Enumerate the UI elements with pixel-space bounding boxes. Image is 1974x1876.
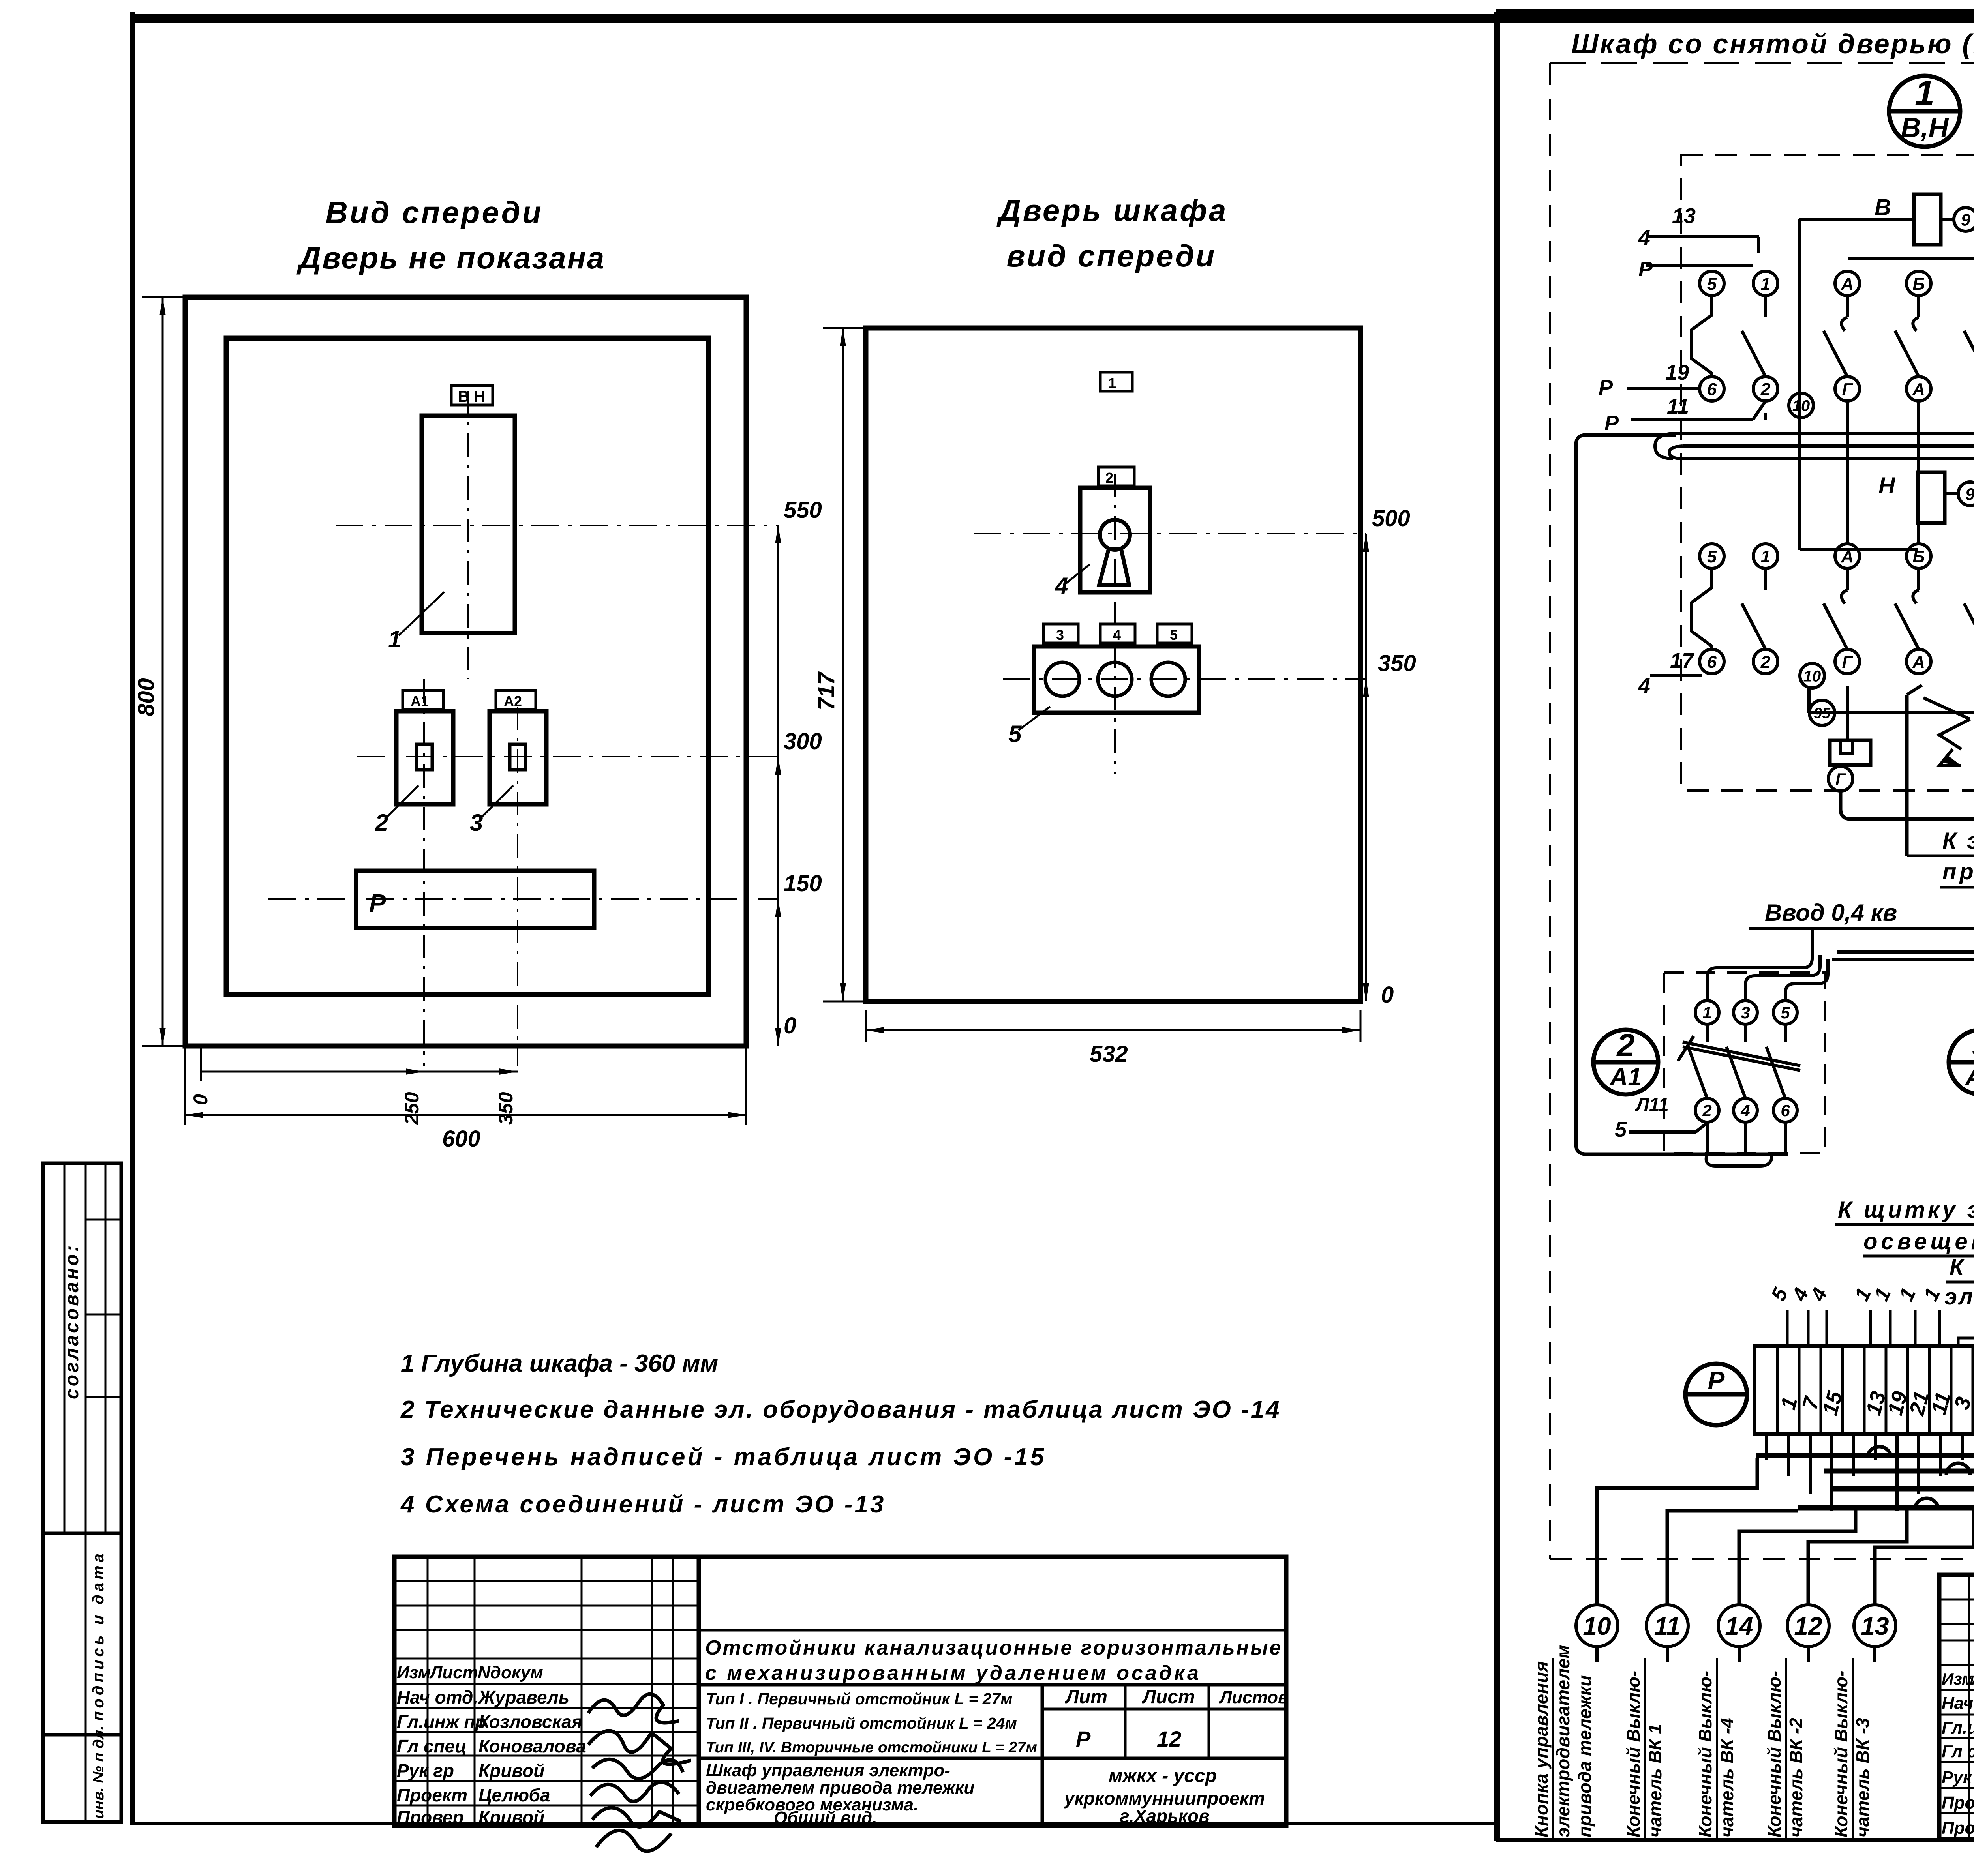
svg-text:Кнопка управления: Кнопка управления — [1531, 1661, 1552, 1837]
svg-text:Провер: Провер — [397, 1807, 464, 1827]
svg-text:10: 10 — [1583, 1612, 1611, 1640]
svg-text:А1: А1 — [1609, 1063, 1642, 1091]
svg-text:4: 4 — [1055, 573, 1068, 599]
svg-text:К шкафу управления: К шкафу управления — [1950, 1254, 1974, 1280]
svg-text:В: В — [1875, 195, 1891, 220]
svg-text:11: 11 — [1667, 395, 1689, 418]
svg-text:Гл.инж пр: Гл.инж пр — [1942, 1718, 1974, 1737]
svg-text:Г: Г — [1842, 380, 1853, 399]
svg-text:А2: А2 — [1965, 1063, 1974, 1091]
svg-text:550: 550 — [784, 497, 822, 523]
svg-text:Проект: Проект — [1942, 1793, 1974, 1812]
svg-text:Ввод 0,4 кв: Ввод 0,4 кв — [1765, 900, 1897, 926]
svg-text:А: А — [1841, 274, 1854, 294]
svg-text:Журавель: Журавель — [478, 1687, 569, 1707]
svg-text:0: 0 — [784, 1013, 796, 1038]
svg-text:1: 1 — [1761, 547, 1770, 566]
svg-text:согласовано:: согласовано: — [62, 1243, 83, 1399]
svg-text:Целюба: Целюба — [478, 1785, 550, 1805]
svg-text:Изм: Изм — [1942, 1670, 1974, 1688]
svg-text:подпись и дата: подпись и дата — [90, 1550, 107, 1721]
svg-text:5: 5 — [1615, 1118, 1627, 1141]
svg-text:17: 17 — [1670, 649, 1695, 673]
svg-text:Гл спец: Гл спец — [1942, 1742, 1974, 1761]
svg-text:А: А — [1912, 380, 1925, 399]
svg-text:350: 350 — [1378, 650, 1416, 676]
svg-text:95: 95 — [1814, 705, 1831, 722]
svg-text:Отстойники канализационные г: Отстойники канализационные горизонтальны… — [705, 1636, 1282, 1659]
svg-text:Рук гр: Рук гр — [397, 1760, 454, 1781]
svg-text:Л11: Л11 — [1635, 1094, 1669, 1115]
svg-text:Р: Р — [1076, 1726, 1091, 1751]
svg-text:с механизированным удалением: с механизированным удалением осадка — [705, 1662, 1201, 1685]
svg-text:4: 4 — [1638, 674, 1650, 697]
svg-text:350: 350 — [495, 1092, 517, 1125]
svg-text:Листов: Листов — [1219, 1688, 1289, 1707]
svg-text:Шкаф со снятой дверью (ви: Шкаф со снятой дверью (вид спереди) — [1571, 28, 1974, 59]
svg-text:Рук гр: Рук гр — [1942, 1768, 1974, 1787]
svg-text:600: 600 — [442, 1126, 480, 1152]
svg-text:К электродвигателю: К электродвигателю — [1942, 828, 1974, 854]
svg-text:Нач отд.: Нач отд. — [1942, 1694, 1974, 1713]
svg-text:Гл спец: Гл спец — [397, 1736, 467, 1756]
svg-text:Провер: Провер — [1942, 1818, 1974, 1838]
svg-text:13: 13 — [1861, 1612, 1889, 1640]
svg-text:Дверь не показана: Дверь не показана — [296, 240, 606, 275]
svg-text:1: 1 — [1915, 73, 1935, 113]
svg-text:чатель ВК 1: чатель ВК 1 — [1645, 1724, 1665, 1837]
svg-text:2: 2 — [375, 810, 388, 836]
svg-text:Б: Б — [1912, 274, 1925, 294]
svg-text:Нач отд.: Нач отд. — [397, 1687, 478, 1707]
svg-text:двигателем привода тележки: двигателем привода тележки — [706, 1778, 974, 1797]
svg-text:300: 300 — [784, 729, 822, 754]
svg-text:Общий вид.: Общий вид. — [774, 1808, 877, 1827]
svg-text:500: 500 — [1372, 506, 1410, 531]
svg-text:Шкаф управления электро-: Шкаф управления электро- — [706, 1761, 950, 1780]
svg-text:чатель ВК -2: чатель ВК -2 — [1786, 1718, 1806, 1837]
svg-text:Вид спереди: Вид спереди — [325, 195, 543, 230]
svg-text:Конечный Выклю-: Конечный Выклю- — [1831, 1671, 1851, 1837]
svg-text:5: 5 — [1170, 627, 1178, 643]
svg-text:2: 2 — [1760, 652, 1771, 672]
svg-text:Проект: Проект — [397, 1785, 467, 1805]
svg-text:19: 19 — [1665, 361, 1689, 384]
svg-text:привода тележки: привода тележки — [1574, 1675, 1595, 1837]
svg-text:9: 9 — [1965, 485, 1974, 504]
svg-text:5: 5 — [1707, 547, 1717, 566]
svg-text:12: 12 — [1157, 1726, 1181, 1751]
svg-text:Тип I . Первичный отстойник: Тип I . Первичный отстойник L = 27м — [706, 1690, 1013, 1708]
svg-text:Р: Р — [1599, 376, 1613, 399]
svg-text:вид спереди: вид спереди — [1007, 238, 1216, 273]
svg-text:привода тележки: привода тележки — [1942, 859, 1974, 885]
svg-text:800: 800 — [133, 678, 159, 716]
svg-text:1: 1 — [388, 626, 401, 652]
svg-text:Тип II . Первичный отстойник: Тип II . Первичный отстойник L = 24м — [706, 1714, 1017, 1732]
svg-text:3: 3 — [1056, 627, 1064, 643]
svg-text:инв. № п дл.: инв. № п дл. — [90, 1726, 107, 1819]
svg-text:Н: Н — [1878, 473, 1895, 499]
svg-text:Конечный Выклю-: Конечный Выклю- — [1623, 1671, 1644, 1837]
svg-text:2: 2 — [1702, 1101, 1711, 1120]
svg-text:Изм: Изм — [397, 1663, 431, 1682]
svg-text:1 Глубина шкафа - 360 мм: 1 Глубина шкафа - 360 мм — [401, 1350, 718, 1377]
svg-text:Конечный Выклю-: Конечный Выклю- — [1764, 1671, 1784, 1837]
svg-text:г.Харьков: г.Харьков — [1120, 1806, 1210, 1826]
svg-text:12: 12 — [1794, 1612, 1822, 1640]
svg-text:Р: Р — [1708, 1366, 1725, 1394]
svg-text:А2: А2 — [504, 693, 522, 709]
svg-text:3: 3 — [1972, 1027, 1974, 1063]
svg-text:Кривой: Кривой — [478, 1807, 544, 1827]
svg-text:Nдокум: Nдокум — [478, 1663, 543, 1682]
svg-text:Кривой: Кривой — [478, 1760, 544, 1781]
svg-text:3 Перечень надписей - табл: 3 Перечень надписей - таблица лист ЭО -1… — [401, 1443, 1046, 1471]
svg-text:14: 14 — [1725, 1612, 1753, 1640]
svg-text:В Н: В Н — [458, 388, 485, 405]
svg-text:6: 6 — [1707, 652, 1717, 672]
svg-text:6: 6 — [1707, 380, 1717, 399]
svg-text:В,Н: В,Н — [1901, 112, 1949, 143]
svg-text:А1: А1 — [411, 693, 429, 709]
svg-text:10: 10 — [1803, 667, 1821, 685]
svg-text:717: 717 — [814, 671, 839, 710]
svg-text:9: 9 — [1961, 210, 1970, 229]
svg-text:1: 1 — [1761, 274, 1770, 294]
svg-text:чатель ВК -3: чатель ВК -3 — [1852, 1718, 1873, 1837]
svg-text:Р: Р — [1638, 257, 1653, 281]
svg-text:Р: Р — [1604, 411, 1619, 435]
svg-text:10: 10 — [1792, 397, 1810, 414]
svg-text:Коновалова: Коновалова — [478, 1736, 586, 1756]
svg-text:Лист: Лист — [1142, 1687, 1195, 1707]
svg-text:2: 2 — [1105, 470, 1113, 486]
svg-text:Г: Г — [1835, 770, 1846, 788]
svg-text:1: 1 — [1108, 375, 1116, 391]
svg-text:3: 3 — [470, 810, 483, 836]
svg-text:Р: Р — [369, 889, 386, 917]
svg-text:1: 1 — [1702, 1003, 1711, 1022]
svg-text:Гл.инж пр: Гл.инж пр — [397, 1711, 486, 1732]
svg-text:4: 4 — [1740, 1101, 1750, 1120]
svg-text:150: 150 — [784, 871, 822, 896]
svg-text:5: 5 — [1781, 1003, 1790, 1022]
svg-text:2: 2 — [1616, 1027, 1635, 1063]
svg-text:электродвигателем: электродвигателем — [1553, 1645, 1573, 1837]
svg-text:мжкх - усср: мжкх - усср — [1109, 1765, 1217, 1786]
svg-text:5: 5 — [1707, 274, 1717, 294]
svg-text:0: 0 — [190, 1094, 212, 1105]
svg-text:2 Технические данные эл. о: 2 Технические данные эл. оборудования - … — [400, 1396, 1281, 1423]
svg-text:Г: Г — [1842, 652, 1853, 672]
svg-text:К щитку электро-: К щитку электро- — [1838, 1197, 1974, 1223]
svg-text:3: 3 — [1741, 1003, 1750, 1022]
svg-text:Лист: Лист — [429, 1663, 478, 1682]
svg-text:250: 250 — [401, 1092, 423, 1125]
svg-text:11: 11 — [1654, 1612, 1680, 1640]
svg-text:6: 6 — [1781, 1101, 1790, 1120]
svg-text:Лит: Лит — [1065, 1687, 1107, 1707]
svg-text:освещения: освещения — [1863, 1229, 1974, 1254]
svg-text:13: 13 — [1672, 204, 1696, 228]
svg-text:2: 2 — [1760, 380, 1771, 399]
svg-text:4 Схема соединений - лист: 4 Схема соединений - лист ЭО -13 — [400, 1491, 886, 1518]
svg-text:0: 0 — [1381, 982, 1394, 1008]
svg-text:Тип III, IV. Вторичные отстой: Тип III, IV. Вторичные отстойники L = 27… — [706, 1739, 1037, 1756]
svg-text:Козловская: Козловская — [478, 1711, 582, 1732]
svg-text:532: 532 — [1090, 1041, 1128, 1067]
svg-text:5: 5 — [1008, 721, 1022, 747]
svg-text:Дверь шкафа: Дверь шкафа — [996, 193, 1228, 228]
svg-text:чатель ВК -4: чатель ВК -4 — [1717, 1718, 1737, 1837]
svg-text:А: А — [1912, 652, 1925, 672]
svg-text:Конечный Выклю-: Конечный Выклю- — [1695, 1671, 1715, 1837]
svg-text:электродвигателем: электродвигателем — [1944, 1284, 1974, 1310]
